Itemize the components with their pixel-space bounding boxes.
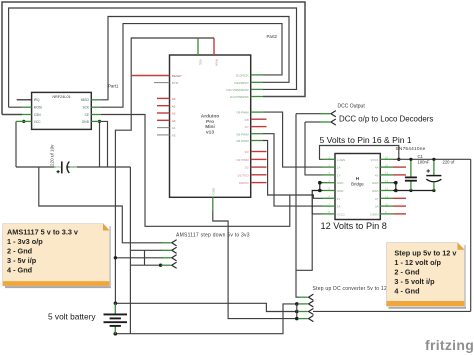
svg-text:10: 10 [385, 202, 389, 206]
pin 2 fork [309, 301, 314, 307]
wire net CE: NRF CE to D5/2Y node [101, 115, 290, 227]
svg-text:1 - 3v3 o/p: 1 - 3v3 o/p [7, 237, 43, 246]
pin 4 fork [309, 316, 314, 322]
wire net 3V3: NRF VCC / AMS pin1 [16, 120, 163, 243]
note shadow [5, 286, 111, 288]
wire [2, 114, 22, 116]
svg-text:4 - Gnd: 4 - Gnd [394, 287, 419, 296]
junction [432, 158, 435, 161]
wire [131, 38, 214, 76]
junction [114, 256, 117, 259]
note shadow [389, 307, 467, 309]
wire [393, 182, 396, 184]
pin stub A0 [157, 97, 170, 99]
wire [2, 2, 305, 115]
wire net D9 to H-bridge 1A [263, 112, 323, 167]
pin stub 1Y [323, 174, 336, 176]
wire: cap rail right segment [68, 166, 131, 168]
junction [394, 189, 398, 193]
svg-text:Pro: Pro [206, 119, 214, 125]
svg-text:VCC: VCC [199, 59, 203, 66]
svg-text:VCC: VCC [34, 120, 41, 124]
svg-text:D2: D2 [245, 166, 249, 170]
wire: NRF VCC down [15, 121, 17, 167]
wire row4 [130, 264, 163, 266]
wire net D5 to H-bridge 2Y [263, 141, 323, 199]
plus sign [427, 169, 430, 172]
svg-text:DCC o/p to Loco Decoders: DCC o/p to Loco Decoders [339, 114, 433, 123]
junction [295, 310, 299, 314]
svg-text:DCC Output: DCC Output [338, 104, 366, 110]
pin stub D7 [251, 126, 267, 128]
svg-text:5 volt battery: 5 volt battery [48, 311, 96, 321]
svg-text:5 Volts to Pin 16 & Pin 1: 5 Volts to Pin 16 & Pin 1 [320, 135, 412, 145]
wire: gnd rail down to battery- [129, 167, 131, 334]
wire: 3v3 rail down-right to AMS pin1 [39, 167, 163, 243]
wire [9, 106, 22, 108]
pin stub CE [91, 114, 101, 116]
svg-text:MISO: MISO [81, 98, 90, 102]
wire [305, 121, 321, 123]
svg-text:1,2EN: 1,2EN [337, 158, 345, 162]
wire: H-bridge VCC2 pin 8 feed [296, 214, 323, 270]
svg-text:2 - Gnd: 2 - Gnd [7, 247, 32, 256]
wire: NRF GND corner down [101, 121, 108, 167]
svg-text:15: 15 [385, 163, 389, 167]
svg-text:VCC1: VCC1 [370, 158, 378, 162]
pin wire RESET [132, 75, 170, 77]
svg-text:RAW: RAW [215, 59, 219, 66]
svg-text:GND: GND [372, 189, 380, 193]
svg-text:4Y: 4Y [375, 173, 379, 177]
svg-text:D6 PWM: D6 PWM [237, 132, 250, 136]
pin stub D11 [251, 88, 263, 90]
pin stub 2Y [323, 197, 336, 199]
pin stub D3 [251, 158, 267, 160]
junction [295, 317, 299, 321]
svg-text:SCK: SCK [82, 106, 89, 110]
junction [397, 158, 400, 161]
pin 3 green lead [161, 257, 171, 259]
connector J3 step up DC converter (4 pin) [298, 286, 387, 321]
wire: DCC output pin 1 [296, 113, 321, 115]
bottom lead [114, 326, 116, 333]
pin stub A4 [157, 127, 170, 129]
note Step up 5v to 12v [387, 243, 467, 309]
top lead [410, 159, 412, 176]
wire: long 5v feed from step-up pin3 [313, 310, 471, 312]
svg-text:12 Volts to Pin 8: 12 Volts to Pin 8 [321, 221, 387, 231]
svg-text:D11 PWM/MOSI: D11 PWM/MOSI [227, 88, 249, 92]
pin stub D9 [251, 111, 263, 113]
svg-text:fritzing: fritzing [425, 337, 474, 353]
wire net H-bridge left GND [312, 181, 322, 214]
svg-text:D13/SCK: D13/SCK [236, 74, 249, 78]
svg-text:D4: D4 [245, 150, 249, 154]
svg-text:SN754410ne: SN754410ne [396, 146, 426, 152]
svg-text:A1: A1 [172, 104, 176, 108]
svg-text:GND: GND [337, 189, 345, 193]
wire 3,4EN unconnected [393, 213, 406, 215]
junction [394, 181, 398, 185]
bottom lead [433, 183, 435, 191]
junction [318, 189, 322, 193]
junction [98, 120, 101, 123]
pin 2 fork [172, 248, 177, 254]
pin 1 fork [172, 240, 177, 246]
svg-text:2 - Gnd: 2 - Gnd [394, 268, 419, 277]
pin stub IRQ [17, 99, 32, 101]
straight plate [61, 161, 63, 173]
wire [320, 146, 399, 160]
pin 1 green lead [161, 242, 171, 244]
wire net DCC1 / 12V: H-bridge pin8, DCC pin1, step-up pin1 [296, 114, 323, 298]
note bar [387, 301, 465, 306]
note fold [458, 243, 465, 250]
wire: gnd down to pin8 rail [312, 191, 320, 214]
Arduino body [170, 55, 251, 197]
pin stub GND12 [380, 190, 393, 192]
pin 4 green lead [298, 318, 308, 320]
NRF24L01 body [32, 92, 92, 129]
green lead hints [54, 166, 61, 168]
wire [9, 8, 297, 107]
wire net DCC2: H-bridge 1Y to DCC pin2 [305, 122, 323, 175]
pin stub D2 [251, 166, 267, 168]
svg-text:GND: GND [337, 181, 345, 185]
svg-text:RESET: RESET [172, 74, 182, 78]
wire net MOSI: D11 to NRF MOSI [9, 8, 297, 107]
svg-text:NRF24L01: NRF24L01 [52, 95, 70, 99]
svg-text:220 uf 10v: 220 uf 10v [50, 144, 55, 166]
svg-text:D5 PWM: D5 PWM [237, 139, 250, 143]
svg-text:MOSI: MOSI [34, 106, 42, 110]
pin stub 3Y [380, 197, 393, 199]
note bar [3, 281, 110, 286]
wire net 5V: battery+ rail to Arduino VCC/RAW [114, 38, 299, 313]
pin 1 green lead [320, 113, 330, 115]
wire: VCC1 rail to caps [393, 158, 471, 160]
pin 1 green lead [298, 296, 308, 298]
pin stub 1A [323, 166, 336, 168]
H-bridge SN754410 U2 [323, 146, 426, 220]
junction [318, 181, 322, 185]
pin stub RAW top [213, 38, 215, 55]
wire [101, 24, 282, 108]
wire: battery+ to step-up 5v input [115, 303, 296, 311]
svg-text:100nF: 100nF [418, 159, 430, 164]
svg-text:4A: 4A [375, 166, 379, 170]
pin stub A2 [157, 112, 170, 114]
wire: cap rail left segment [16, 166, 56, 168]
top plate [405, 176, 417, 178]
svg-text:D10 PWM/SS: D10 PWM/SS [230, 95, 249, 99]
pin stub 4A red [380, 166, 393, 168]
svg-text:DTR: DTR [172, 81, 179, 85]
junction [295, 302, 299, 306]
svg-text:v13: v13 [206, 129, 214, 135]
svg-text:1 - 12 volt o/p: 1 - 12 volt o/p [394, 258, 441, 267]
pin stub GND4 [323, 182, 336, 184]
wire net D6 to H-bridge 2A [263, 134, 323, 206]
connector J1 DCC output (2 pin) [320, 111, 335, 125]
svg-text:14: 14 [385, 171, 389, 175]
wire 4Y unconnected [393, 174, 406, 176]
svg-text:D8: D8 [245, 118, 249, 122]
SN754410 body [335, 154, 380, 220]
wire [115, 76, 131, 304]
pin stub A1 [157, 105, 170, 107]
junction [159, 264, 162, 267]
pin stub MOSI [22, 106, 32, 108]
wire jumper pin2-pin4 [144, 250, 146, 265]
pin stub SCK [91, 106, 101, 108]
wire [305, 122, 323, 175]
wire net GND: NRF gnd / cap / battery- [16, 120, 299, 336]
pin stub VCC1 [380, 158, 393, 160]
wire: NRF GND down [99, 121, 101, 167]
pin 1 fork [309, 294, 314, 300]
pin stub GND13 [380, 182, 393, 184]
pin stub GND bottom [212, 197, 214, 212]
wire: AMS1117 pin3 5v input feed [115, 257, 163, 259]
junction [409, 189, 412, 192]
wire row2 [130, 249, 163, 251]
wire [263, 134, 323, 206]
wire [213, 211, 297, 319]
svg-text:GND: GND [82, 120, 90, 124]
svg-text:D3 PWM: D3 PWM [237, 158, 250, 162]
pin stub D1 [251, 174, 267, 176]
wire [320, 182, 323, 184]
junction [22, 120, 25, 123]
svg-text:D12/MISO: D12/MISO [234, 81, 249, 85]
wire [320, 190, 323, 192]
svg-text:Step up 5v to 12 v: Step up 5v to 12 v [394, 248, 457, 257]
svg-text:220 uf: 220 uf [443, 160, 455, 165]
wire net 5V to H-bridge pin1 and pin16 [313, 146, 471, 312]
svg-text:D1/TXO: D1/TXO [238, 173, 250, 177]
wire 3A unconnected [393, 205, 406, 207]
pin stub A5 [157, 134, 170, 136]
pin 1 fork [331, 111, 336, 117]
pin 2 green lead [320, 121, 330, 123]
pin stub 2A [323, 205, 336, 207]
svg-text:D7: D7 [245, 125, 249, 129]
pin stub VCC [16, 120, 32, 122]
pin stub 4Y [380, 174, 393, 176]
long plate [104, 313, 128, 315]
pin stub MISO [91, 99, 101, 101]
svg-text:Part2: Part2 [267, 34, 278, 39]
pin stub 3A [380, 205, 393, 207]
note body [3, 224, 110, 286]
svg-text:A0: A0 [172, 97, 176, 101]
wire: 5v riser to step-up 5v line [470, 159, 472, 311]
wire net H-bridge right GND to caps [393, 181, 436, 192]
svg-text:A3: A3 [172, 119, 176, 123]
wire net SCK: D13 to NRF SCK [101, 24, 282, 108]
wire: connector bus [296, 304, 298, 319]
short plate [110, 317, 121, 319]
capacitor C1 100nF ceramic [405, 154, 430, 191]
svg-text:IRQ: IRQ [34, 98, 40, 102]
wire [101, 115, 290, 227]
wire [263, 112, 323, 167]
wire net MISO: D12 to NRF MISO [101, 17, 289, 100]
pin 3 green lead [298, 311, 308, 313]
svg-text:CE: CE [85, 113, 89, 117]
svg-text:D9 PWM: D9 PWM [237, 111, 250, 115]
short plate [110, 325, 121, 327]
svg-text:AMS1117 5 v to 3.3 v: AMS1117 5 v to 3.3 v [7, 228, 79, 237]
svg-text:3Y: 3Y [375, 197, 379, 201]
svg-text:3 - 5 volt i/p: 3 - 5 volt i/p [394, 277, 435, 286]
svg-text:13: 13 [385, 179, 389, 183]
junction [432, 189, 435, 192]
note AMS1117 5v to 3.3v [3, 224, 111, 289]
svg-text:CSN: CSN [34, 113, 41, 117]
wire [395, 183, 397, 191]
junction battery + [114, 302, 118, 306]
svg-text:16: 16 [385, 156, 389, 160]
svg-text:Arduino: Arduino [201, 114, 219, 120]
svg-text:H: H [356, 176, 359, 181]
svg-text:C1: C1 [418, 154, 424, 159]
pin stub GND5 [323, 190, 336, 192]
bottom plate [405, 180, 417, 182]
note body [387, 243, 465, 307]
pin 2 fork [331, 119, 336, 125]
wire: battery- to step-up pin2 [115, 304, 296, 334]
pin stub D12 [251, 81, 263, 83]
top lead [433, 159, 435, 175]
svg-text:1A: 1A [337, 166, 341, 170]
svg-text:4 - Gnd: 4 - Gnd [7, 266, 32, 275]
pin stub D10 [251, 96, 263, 98]
top lead [114, 303, 116, 313]
wire 4A unconnected [393, 166, 406, 168]
pin stub D5 [251, 140, 263, 142]
svg-text:Part1: Part1 [108, 84, 119, 89]
curved plate [67, 162, 69, 174]
note fold [103, 224, 110, 231]
svg-text:Bridge: Bridge [351, 182, 364, 187]
wire net SS: D10 to NRF CSN (outermost loop) [2, 2, 305, 115]
bottom lead [410, 181, 412, 190]
pin stub DTR [154, 82, 170, 84]
pin stub D13 [251, 74, 263, 76]
capacitor 220uf electrolytic (12v side) [426, 158, 455, 191]
wire 3Y unconnected [393, 197, 406, 199]
pin 4 green lead [161, 264, 171, 266]
pin 3 fork [172, 255, 177, 261]
svg-text:3A: 3A [375, 205, 379, 209]
pin stub 3,4EN [380, 213, 393, 215]
pin 2 green lead [161, 249, 171, 251]
wire: gnd to capacitor bottoms [393, 190, 434, 192]
svg-text:GND: GND [372, 181, 380, 185]
pin stub D0 [251, 182, 267, 184]
svg-text:A4: A4 [172, 126, 176, 130]
Arduino Pro Mini U1 [132, 38, 267, 212]
svg-text:2A: 2A [337, 205, 341, 209]
long plate [104, 321, 128, 323]
wire: 12 volt riser [296, 114, 299, 298]
pin 3 fork [309, 309, 314, 315]
battery B1 5 volt [48, 303, 127, 333]
pin stub VCC top [197, 38, 199, 55]
pin stub 1,2EN [323, 158, 336, 160]
svg-text:AMS1117 step down 5v to 3v3: AMS1117 step down 5v to 3v3 [176, 232, 250, 238]
wire [263, 141, 323, 199]
pin stub GND [91, 120, 101, 122]
curved plate [426, 179, 441, 182]
wire net AMS gnd rows [130, 250, 163, 267]
junction [409, 158, 412, 161]
pin stub D6 [251, 133, 263, 135]
pin stub A3 [157, 119, 170, 121]
wire net Arduino GND to step-up pin4 [213, 211, 299, 320]
pin stub CSN [22, 114, 32, 116]
pin 4 fork [172, 262, 177, 268]
plus sign [57, 170, 60, 173]
pin stub D8 [251, 118, 267, 120]
wire: gnd link between pins 4 and 5 [319, 183, 321, 191]
NRF24L01 module Part1 [16, 92, 101, 129]
junction battery - [114, 332, 118, 336]
svg-text:Mini: Mini [205, 124, 215, 130]
straight plate [426, 175, 441, 177]
svg-text:3,4EN: 3,4EN [370, 212, 378, 216]
pin stub D4 [251, 151, 267, 153]
svg-text:1Y: 1Y [337, 173, 341, 177]
svg-text:Step up DC converter 5v to 12: Step up DC converter 5v to 12 [313, 286, 388, 292]
capacitor C 220uf 10v (electrolytic, NRF supply) [50, 144, 78, 174]
connector J2 AMS1117 step down (4 pin) [161, 232, 250, 268]
svg-text:VCC2: VCC2 [337, 212, 345, 216]
svg-text:12: 12 [385, 187, 389, 191]
svg-text:GND: GND [211, 187, 215, 195]
svg-text:3 - 5v i/p: 3 - 5v i/p [7, 256, 37, 265]
pin 2 green lead [298, 303, 308, 305]
wire [101, 17, 289, 100]
svg-text:2Y: 2Y [337, 197, 341, 201]
svg-text:11: 11 [385, 195, 388, 199]
pin stub VCC2 [323, 213, 336, 215]
svg-text:A5: A5 [172, 134, 176, 138]
svg-text:D0/RXI: D0/RXI [239, 181, 249, 185]
svg-text:A2: A2 [172, 112, 176, 116]
